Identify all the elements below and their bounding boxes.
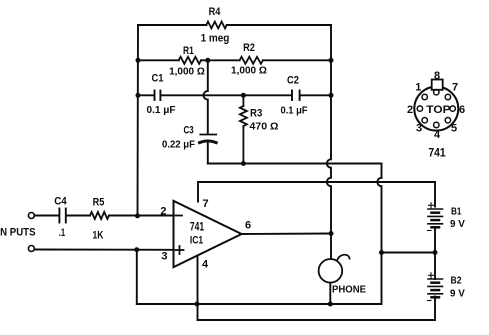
label pin 4 (202, 259, 209, 271)
label pin 6 (pkg) (459, 104, 465, 116)
svg-text:C3: C3 (184, 125, 194, 137)
wire: B1 bottom to midpoint (434, 227, 436, 252)
wire: C3 bottom stub to ground rail (207, 143, 209, 164)
label R3 (250, 108, 262, 120)
wire: lower input y=249.5 (34, 249, 173, 251)
wire: supply mid rail y=252.5 (382, 252, 436, 254)
battery B1 minus mark (428, 230, 432, 232)
label 9 V (B2) (450, 288, 465, 300)
label pin 7 (203, 198, 209, 210)
label 1,000 ohm (R1) (169, 66, 205, 78)
svg-text:741: 741 (428, 146, 446, 160)
svg-text:TOP: TOP (426, 104, 450, 116)
battery B2 (428, 279, 443, 297)
wire: pin6 output y=233.5 (242, 233, 331, 236)
741 pin circle 1 (422, 94, 427, 99)
node: junction left rail y=95.3 (136, 93, 141, 98)
741 pin circle 6 (450, 106, 455, 111)
svg-text:5: 5 (451, 123, 457, 135)
svg-text:0.1 μF: 0.1 μF (147, 104, 177, 116)
741 pin circle 8 (434, 90, 439, 95)
svg-text:470 Ω: 470 Ω (250, 121, 279, 133)
wire: right vertical bus x=331 (output bus) (327, 25, 331, 258)
741 pin circle 4 (434, 122, 439, 127)
svg-text:B2: B2 (451, 275, 462, 287)
svg-text:8: 8 (434, 70, 440, 82)
input terminal upper (28, 213, 34, 219)
label R2 (243, 42, 255, 54)
741 pin circle 2 (417, 106, 422, 111)
node: junction ground/mid left (379, 250, 384, 255)
resistor R2 (240, 57, 263, 64)
capacitor C3 (200, 135, 217, 143)
node: junction R1-R2 (205, 58, 210, 63)
label 9 V (B1) (450, 218, 465, 230)
svg-text:R4: R4 (209, 6, 222, 18)
svg-text:2: 2 (407, 104, 413, 116)
svg-text:6: 6 (459, 104, 465, 116)
svg-text:C2: C2 (287, 75, 299, 87)
741 pin circle 5 (445, 118, 450, 123)
label 1K (R5) (93, 230, 104, 242)
wire: third rail y=95.3 (138, 94, 331, 96)
capacitor C4 (59, 209, 65, 223)
battery B1 plus mark (429, 203, 434, 208)
label 741 (inside op-amp) (190, 220, 205, 234)
svg-text:0.1 μF: 0.1 μF (281, 105, 309, 117)
label pin 2 (160, 206, 166, 218)
node: junction pin3 / ground drop (134, 247, 139, 252)
wire: ground bottom rail y=303.5 (137, 303, 382, 305)
wire: V- bottom rail y=319.5 to B2 (198, 297, 436, 321)
phone transducer (319, 259, 343, 283)
svg-text:C1: C1 (152, 73, 164, 85)
node: junction R3 top (241, 93, 246, 98)
label pin 2 (pkg) (407, 104, 413, 116)
svg-text:4: 4 (202, 259, 209, 271)
svg-text:3: 3 (416, 123, 422, 135)
svg-text:.1: .1 (59, 227, 65, 239)
label C1 (152, 73, 164, 85)
node: junction right rail y=60.3 (329, 58, 334, 63)
capacitor C2 (292, 91, 300, 101)
battery B2 minus mark (428, 300, 432, 302)
label 0.1 uF (C2) (281, 105, 309, 117)
resistor R4 (206, 22, 226, 29)
label TOP (426, 104, 450, 116)
svg-text:PHONE: PHONE (332, 284, 366, 296)
label pin 8 (434, 70, 440, 82)
battery B2 plus mark (429, 273, 434, 278)
capacitor C1 (155, 91, 161, 101)
svg-text:741: 741 (190, 220, 205, 234)
label 0.1 uF (C1) (147, 104, 177, 116)
label .1 (C4) (59, 227, 65, 239)
label 470 ohm (R3) (250, 121, 279, 133)
input terminal lower (28, 246, 34, 252)
node: junction phone bottom (328, 302, 333, 307)
node: junction battery midpoint (433, 250, 438, 255)
wire: left vertical bus x=137.7 (top section) (137, 25, 140, 216)
op-amp non-inverting input plus sign (176, 246, 184, 254)
op-amp inverting input minus sign (176, 215, 183, 217)
label pin 6 (245, 220, 251, 232)
svg-text:6: 6 (245, 220, 251, 232)
wire: ground vertical x=381.5 below hop (377, 178, 381, 304)
svg-text:1,000 Ω: 1,000 Ω (231, 65, 267, 77)
node: junction pin4 crossing (195, 302, 200, 307)
wire: top loop y=25 (138, 24, 331, 26)
wire: second rail y=60.3 (138, 59, 331, 61)
label 1 meg (201, 33, 230, 45)
svg-text:B1: B1 (451, 206, 462, 218)
node: junction R3 bottom (241, 161, 246, 166)
svg-text:R2: R2 (243, 42, 255, 54)
op-amp U1 triangle (174, 201, 242, 267)
svg-text:4: 4 (434, 129, 441, 141)
wire: upper input y=215.5 (34, 215, 173, 217)
svg-text:7: 7 (452, 82, 458, 94)
label pin 5 (pkg) (451, 123, 457, 135)
label pin 4 (pkg) (434, 129, 441, 141)
node: junction right rail y=95.3 (329, 93, 334, 98)
phone hook (337, 255, 350, 261)
label B2 (451, 275, 462, 287)
label pin 1 (415, 82, 421, 94)
svg-text:0.22 μF: 0.22 μF (162, 139, 196, 151)
label PHONE (332, 284, 366, 296)
label pin 3 (161, 251, 167, 263)
svg-text:1,000 Ω: 1,000 Ω (169, 66, 205, 78)
741 pin circle 3 (422, 118, 427, 123)
wire: ground rail y=163.5 with hop over x=331, corner down at x=381.5 (208, 164, 382, 178)
svg-text:9 V: 9 V (450, 218, 465, 230)
wire: pin4 vertical x=197.5 (197, 256, 199, 320)
label C3 (184, 125, 194, 137)
battery B1 (428, 209, 443, 227)
label C4 (54, 196, 67, 208)
svg-text:1 meg: 1 meg (201, 33, 230, 45)
wire: midpoint to B2 top (434, 253, 436, 280)
wire: lower-left ground vertical x=136.8 (136, 250, 138, 304)
label 741 (package) (428, 146, 446, 160)
node: junction output / phone top (329, 231, 334, 236)
resistor R3 (240, 95, 247, 163)
label pin 3 (pkg) (416, 123, 422, 135)
label pin 7 (pkg) (452, 82, 458, 94)
svg-text:9 V: 9 V (450, 288, 465, 300)
svg-text:R3: R3 (250, 108, 262, 120)
label R5 (93, 197, 105, 209)
svg-text:3: 3 (161, 251, 167, 263)
svg-text:1: 1 (415, 82, 421, 94)
svg-text:IC1: IC1 (190, 235, 203, 247)
label R4 (209, 6, 222, 18)
svg-text:R5: R5 (93, 197, 105, 209)
741 pin circle 7 (445, 94, 450, 99)
wire: V+ rail y=182 from pin7 to B1, hop over x=381.5 (198, 182, 435, 207)
label IC1 (inside op-amp) (190, 235, 203, 247)
wire: C3 branch vertical x=207.8 with hop over y=95.3 (204, 60, 208, 134)
node: junction pin2 / twin-T (135, 213, 140, 218)
svg-text:R1: R1 (183, 45, 194, 57)
label C2 (287, 75, 299, 87)
resistor R1 (179, 57, 201, 64)
label B1 (451, 206, 462, 218)
resistor R5 (90, 212, 109, 219)
label 0.22 uF (C3) (162, 139, 196, 151)
svg-text:C4: C4 (54, 196, 67, 208)
wire: phone bottom stub (329, 283, 331, 304)
svg-text:1K: 1K (93, 230, 104, 242)
741 package top-view diagram: can outline (414, 87, 458, 131)
741 package tab (pin 8 index square) (432, 80, 443, 90)
label R1 (183, 45, 194, 57)
svg-text:IN PUTS: IN PUTS (0, 227, 36, 239)
label INPUTS (0, 227, 36, 239)
node: junction left rail y=60.3 (136, 58, 141, 63)
label 1,000 ohm (R2) (231, 65, 267, 77)
svg-text:7: 7 (203, 198, 209, 210)
